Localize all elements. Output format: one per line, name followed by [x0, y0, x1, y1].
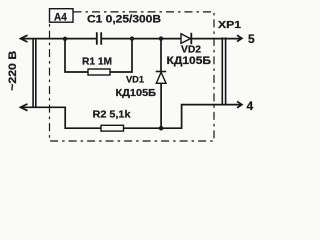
arrow pin 5 — [237, 35, 242, 41]
svg-text:4: 4 — [247, 99, 254, 113]
node VD1-R2 — [159, 126, 164, 131]
arrow mains top — [21, 35, 28, 42]
svg-text:A4: A4 — [54, 11, 68, 23]
diode VD1 — [156, 71, 167, 73]
wire top main — [21, 38, 97, 40]
wire top mid — [101, 38, 181, 40]
cable XP1 — [222, 37, 225, 105]
svg-text:~220 В: ~220 В — [7, 51, 19, 91]
paper background — [0, 0, 268, 153]
wire bottom right — [124, 105, 242, 129]
enclosure dashed border — [50, 12, 215, 141]
designator box A4 — [50, 9, 74, 23]
wire bottom left — [21, 107, 102, 128]
wire VD1 anode — [160, 39, 162, 72]
arrow pin 4 — [237, 101, 242, 107]
svg-text:C1 0,25/300В: C1 0,25/300В — [87, 14, 161, 26]
wire VD1 cathode — [160, 83, 162, 128]
wire R1 branch — [65, 39, 132, 72]
svg-text:5: 5 — [248, 32, 255, 46]
svg-text:КД105Б: КД105Б — [167, 55, 212, 67]
svg-text:VD1: VD1 — [126, 75, 145, 86]
arrow mains bottom — [21, 104, 28, 111]
svg-text:R1 1M: R1 1M — [82, 57, 112, 68]
svg-text:R2 5,1k: R2 5,1k — [93, 109, 131, 121]
resistor R1 — [88, 69, 110, 75]
node VD1 top — [159, 36, 163, 40]
resistor R2 — [101, 125, 124, 131]
svg-text:КД105Б: КД105Б — [116, 87, 157, 99]
wire top right — [191, 38, 241, 40]
cable mains — [33, 39, 36, 108]
capacitor C1 — [97, 32, 101, 45]
diode VD2 — [181, 34, 191, 44]
svg-text:XP1: XP1 — [218, 20, 242, 31]
svg-text:VD2: VD2 — [181, 45, 201, 56]
node C1-R1 right — [130, 36, 134, 40]
node C1-R1 left — [63, 37, 67, 41]
